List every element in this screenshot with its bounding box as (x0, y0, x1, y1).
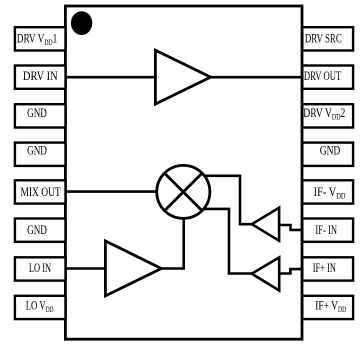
wire IF+ buffer input jog to IF+ IN pin (278, 269, 304, 273)
IC body outline (65, 6, 302, 339)
wire LO amp output up to mixer bottom port (159, 214, 184, 269)
pin box DRV OUT (right row 2) (302, 66, 353, 89)
pin box GND (pin 6 left) (15, 219, 66, 242)
wire driver amp output to DRV OUT pin (208, 76, 302, 79)
svg-text:GND: GND (27, 223, 47, 237)
pin box DRV VDD1 (pin 1 left) (15, 27, 66, 50)
pin box DRV SRC (right row 1) (302, 27, 353, 50)
pin box IF+ VDD (right row 8) (302, 296, 353, 319)
svg-text:GND: GND (27, 144, 47, 158)
op-amp U5 IF+ input buffer (points left) (252, 257, 279, 290)
op-amp U3 LO amplifier (105, 241, 161, 296)
pin box MIX OUT (pin 5 left) (15, 180, 66, 203)
svg-text:MIX OUT: MIX OUT (20, 186, 60, 200)
wire LO IN pin to LO amp input (65, 267, 109, 270)
svg-text:GND: GND (27, 106, 47, 120)
pin box GND (right row 4) (302, 143, 353, 166)
wire IF- buffer input jog to IF- IN pin (278, 225, 304, 230)
pin box DRV IN (pin 2 left) (15, 66, 66, 89)
pin-1 index dot (71, 11, 92, 35)
svg-text:DRV IN: DRV IN (23, 68, 58, 83)
pin box GND (pin 4 left) (15, 143, 66, 166)
pin box IF- VDD (right row 5) (302, 180, 353, 203)
svg-text:LO IN: LO IN (29, 261, 51, 275)
op-amp U4 IF- input buffer (points left) (252, 208, 279, 241)
svg-text:GND: GND (320, 144, 341, 158)
op-amp U1 driver amplifier (155, 50, 210, 104)
svg-text:DRV OUT: DRV OUT (304, 69, 342, 83)
svg-text:IF- IN: IF- IN (315, 223, 337, 237)
wire DRV IN pin to driver amp input (65, 76, 158, 79)
svg-text:DRV SRC: DRV SRC (305, 32, 342, 46)
wire mixer upper right port to IF- buffer output (net A) (204, 176, 253, 224)
svg-text:IF+ IN: IF+ IN (313, 261, 336, 275)
pin box IF+ IN (right row 7) (302, 257, 353, 280)
pin box LO IN (pin 7 left) (15, 257, 66, 280)
wire mixer output to MIX OUT pin (65, 190, 162, 193)
pin box IF- IN (right row 6) (302, 219, 353, 242)
pin box LO VDD (pin 8 left) (15, 296, 66, 319)
pin box GND (pin 3 left) (15, 104, 66, 127)
wire mixer lower right port to IF+ buffer output (net B) (204, 209, 253, 274)
pin box DRV VDD2 (right row 3) (302, 104, 353, 127)
mixer U2 (circle with X) (157, 165, 210, 218)
